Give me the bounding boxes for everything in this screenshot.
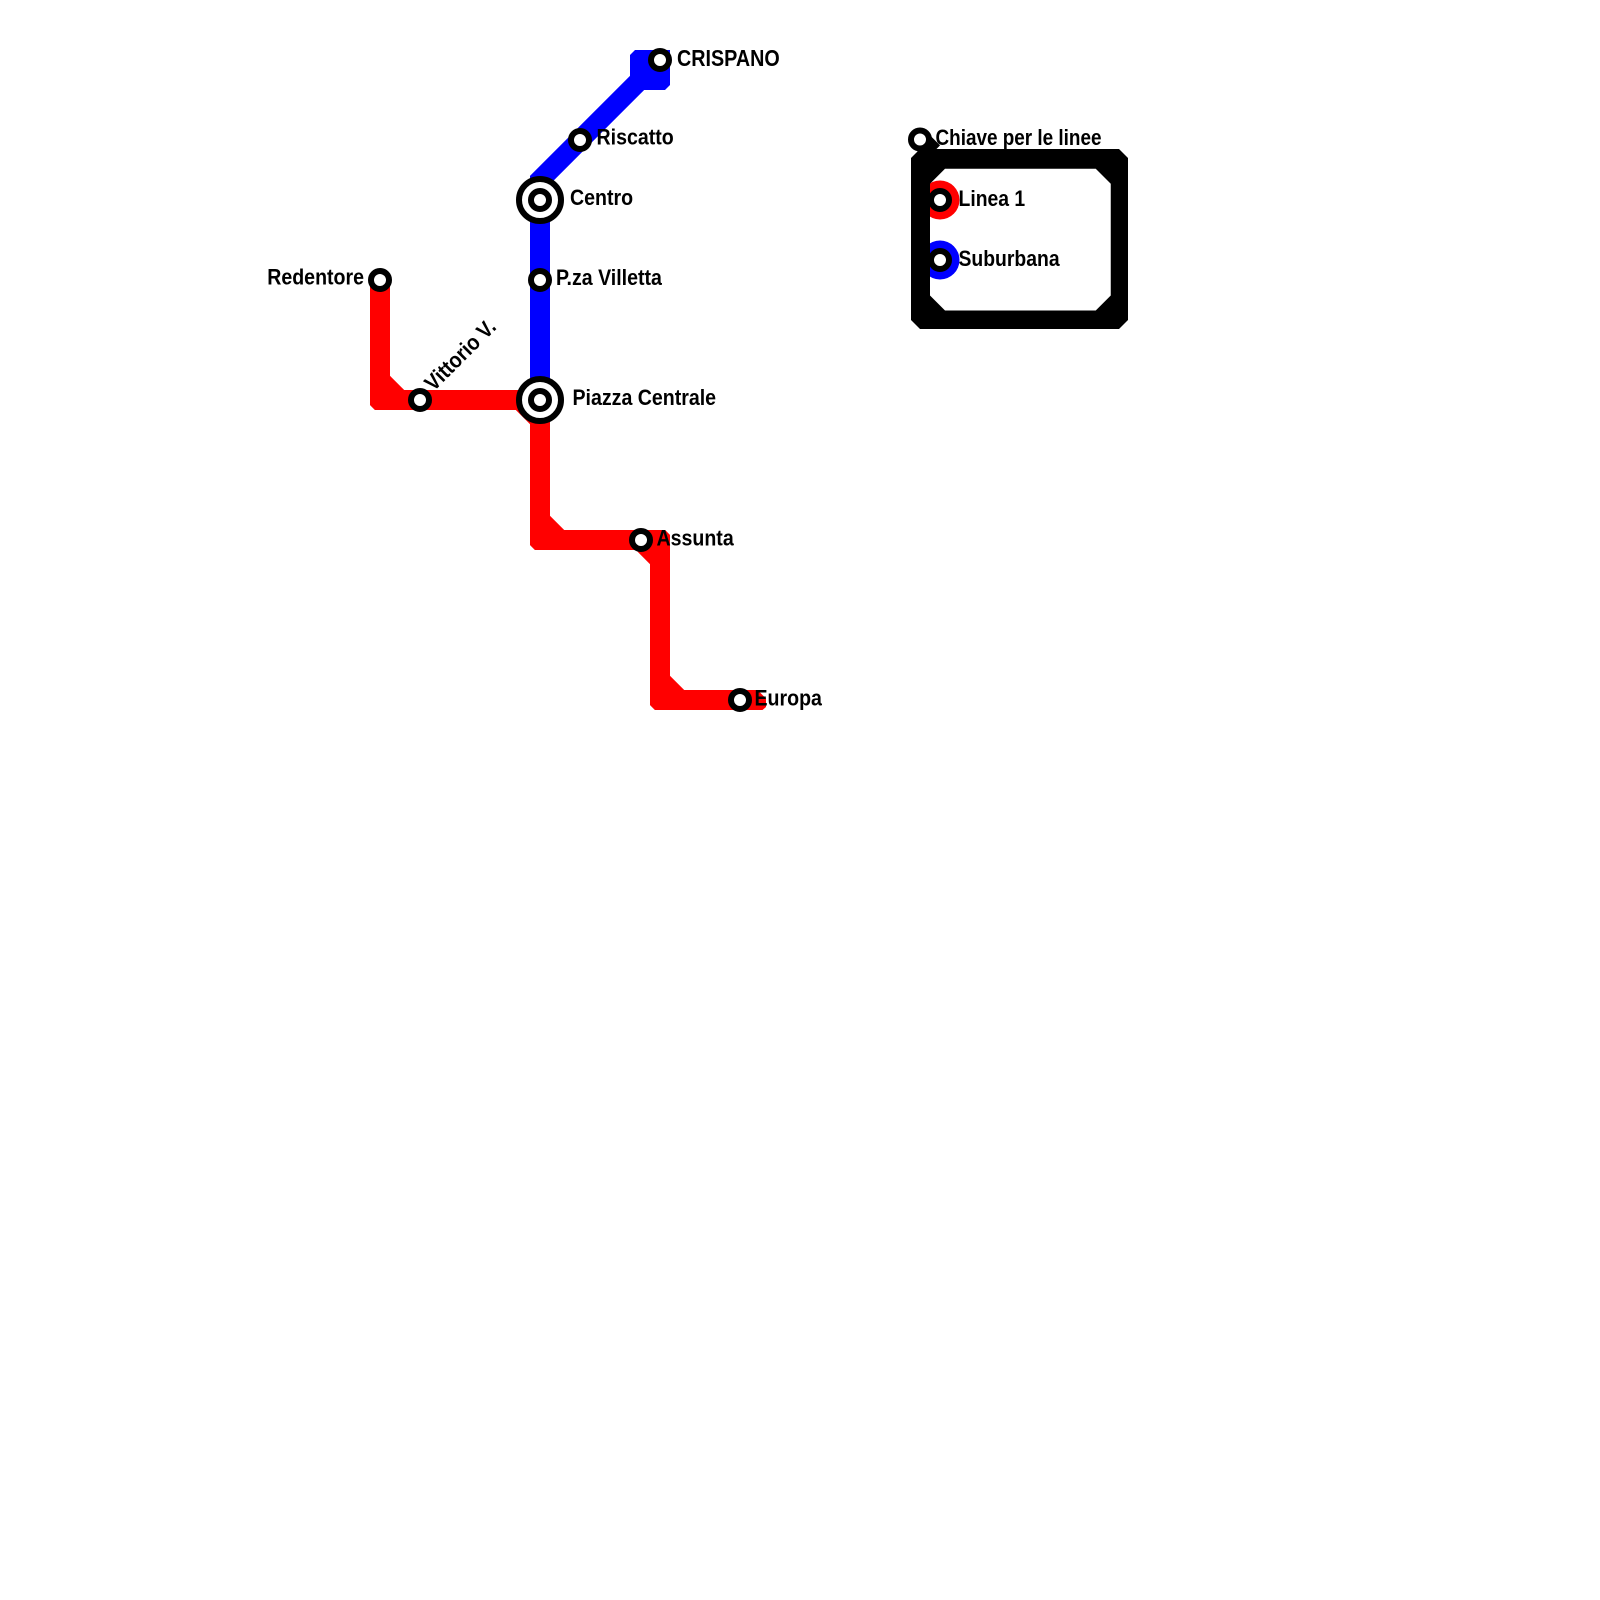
svg-text:Piazza Centrale: Piazza Centrale — [573, 386, 717, 410]
svg-text:Riscatto: Riscatto — [597, 125, 674, 149]
svg-text:Assunta: Assunta — [657, 526, 735, 550]
svg-text:CRISPANO: CRISPANO — [677, 44, 780, 71]
svg-text:Redentore: Redentore — [267, 265, 364, 289]
svg-text:Suburbana: Suburbana — [959, 247, 1061, 271]
svg-text:Chiave per le linee: Chiave per le linee — [936, 125, 1102, 150]
svg-text:Linea 1: Linea 1 — [959, 187, 1026, 211]
svg-text:Europa: Europa — [755, 686, 823, 710]
svg-text:P.za Villetta: P.za Villetta — [556, 266, 662, 290]
svg-text:Centro: Centro — [570, 186, 633, 210]
